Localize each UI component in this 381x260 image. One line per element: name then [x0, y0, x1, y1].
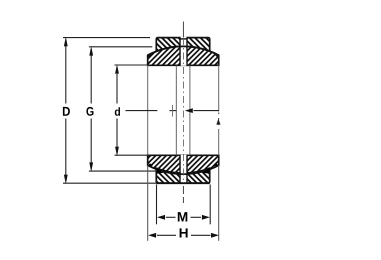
D extension bottom	[63, 182, 156, 184]
outer ring bottom block	[156, 168, 209, 183]
chamfer bottom-right of bottom ring section	[214, 163, 219, 166]
chamfer top-left of top ring section	[148, 55, 151, 58]
sphere arc bottom	[148, 165, 219, 174]
vertical centerline	[182, 22, 184, 204]
dimension G line	[89, 46, 93, 172]
top block edge across hole mouth	[179, 38, 187, 40]
d extension bottom	[115, 154, 150, 156]
G extension top	[89, 46, 152, 48]
label d	[115, 107, 120, 116]
dimension d line	[115, 64, 119, 156]
inner ring face silhouette right	[218, 65, 220, 111]
dimension D line	[64, 37, 68, 184]
M extension lines	[157, 185, 211, 225]
lubrication hole channel (white gap)	[181, 37, 187, 184]
label D	[63, 107, 70, 116]
bottom block bottom edge across hole	[156, 182, 209, 184]
D extension top	[63, 37, 150, 39]
label G	[86, 107, 93, 116]
bore silhouette verticals	[176, 65, 190, 155]
outer ring top block	[156, 38, 209, 53]
label H	[180, 228, 188, 237]
corner wedge bottom-right of bottom block	[203, 168, 210, 174]
corner wedge bottom-left of bottom block	[157, 168, 164, 174]
inner ring face silhouette left	[147, 65, 149, 155]
chamfer bottom-left of bottom ring section	[148, 163, 153, 166]
dimension M	[157, 215, 210, 220]
inner ring bottom section	[148, 155, 219, 174]
sphere arc top (redrawn over hole)	[148, 46, 219, 55]
inner ring top section	[148, 46, 219, 65]
lubrication hole edges bottom	[180, 155, 187, 183]
dimension H	[148, 233, 219, 238]
label M	[178, 212, 188, 221]
G extension bottom	[89, 170, 157, 172]
chamfer top-right of top ring section	[216, 55, 219, 58]
d extension top	[115, 64, 150, 66]
d leader to centerline	[126, 105, 220, 117]
small arrow on right face	[216, 119, 220, 125]
H extension lines	[148, 166, 219, 241]
lubrication hole edges top	[180, 38, 187, 66]
